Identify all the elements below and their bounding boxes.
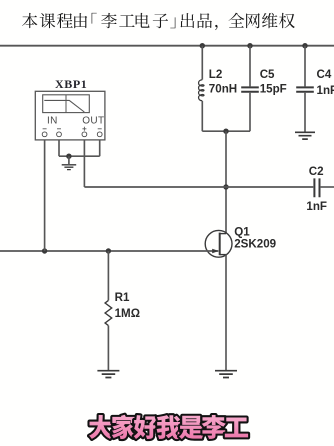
wire: OUT- drop [99, 137, 101, 156]
wire: R1 top lead [107, 251, 109, 300]
svg-text:C2: C2 [309, 165, 324, 178]
node: junction dot gate/IN+ [42, 248, 47, 253]
wire: C4 bottom lead [304, 93, 306, 132]
pin mark OUT- [98, 128, 102, 130]
wire: C2 right lead [321, 186, 334, 188]
svg-text:70nH: 70nH [209, 83, 237, 96]
ground: below C4 [295, 132, 315, 139]
transistor Q1 source stub [220, 254, 226, 256]
pin mark IN+ [43, 128, 47, 130]
wire: gate rail [0, 250, 218, 252]
wire: minus terminals tie [59, 155, 100, 157]
pin OUT- terminal [97, 132, 102, 137]
node: junction dot ground tie [66, 154, 71, 159]
svg-text:Q1: Q1 [234, 225, 250, 238]
capacitor C5 plates [241, 87, 259, 91]
wire: IN+ probe drop [44, 137, 46, 251]
svg-text:1MΩ: 1MΩ [115, 307, 140, 320]
svg-text:1nF: 1nF [306, 200, 327, 213]
pin mark OUT+ [82, 127, 86, 131]
node: junction dot output [223, 184, 228, 189]
ground: below R1 [97, 371, 119, 378]
wire: OUT+ probe drop [83, 137, 85, 187]
wire: drain vertical [225, 131, 227, 233]
node: junction dot rail/L2 [200, 43, 205, 48]
svg-text:C4: C4 [317, 68, 332, 81]
instrument XBP1 screen curve [44, 100, 84, 112]
wire: C5 bottom lead [249, 93, 251, 131]
svg-text:2SK209: 2SK209 [234, 238, 276, 251]
subtitle text: 大家好我是李工 [89, 415, 113, 439]
instrument XBP1 box [35, 91, 105, 140]
svg-text:15pF: 15pF [260, 83, 287, 96]
node: junction dot rail/C4 [302, 43, 307, 48]
transistor Q1 body [205, 230, 232, 257]
wire: ground stub [68, 156, 70, 164]
wire: R1 bottom lead [107, 326, 109, 370]
transistor Q1 channel bar [219, 233, 221, 256]
wire: top supply rail [0, 45, 334, 47]
wire: L2 bottom lead [201, 101, 203, 131]
inductor L2 coil [199, 80, 204, 101]
svg-text:L2: L2 [209, 68, 223, 81]
svg-text:C5: C5 [260, 68, 275, 81]
svg-text:R1: R1 [115, 291, 130, 304]
wire: output to C2 [84, 186, 313, 188]
pin OUT+ terminal [82, 132, 87, 137]
wire: C5 top lead [249, 46, 251, 87]
node: junction dot gate/R1 [106, 248, 111, 253]
pin IN- terminal [57, 132, 62, 137]
transistor Q1 gate arrow [212, 249, 219, 254]
wire: L2 top lead [201, 46, 203, 80]
instrument XBP1 screen [43, 95, 90, 113]
ground: below XBP1 [62, 165, 76, 170]
pin mark IN- [57, 128, 61, 130]
capacitor C2 plates [314, 178, 319, 197]
node: junction dot tank/drain [223, 129, 228, 134]
capacitor C4 plates [296, 87, 314, 91]
resistor R1 zigzag [105, 300, 112, 325]
wire: C4 top lead [304, 46, 306, 87]
wire: tank bottom [202, 130, 250, 132]
ground: below Q1 source [215, 371, 237, 378]
transistor Q1 drain stub [220, 233, 226, 235]
svg-text:XBP1: XBP1 [55, 77, 87, 91]
svg-text:OUT: OUT [82, 115, 104, 126]
title text: 本课程由「李工电子」出品，全网维权 [22, 13, 37, 28]
node: junction dot rail/C5 [247, 43, 252, 48]
pin IN+ terminal [42, 132, 47, 137]
wire: IN- drop [58, 137, 60, 156]
svg-text:1nF: 1nF [317, 84, 334, 97]
instrument XBP1 screen divider [65, 95, 67, 113]
wire: source vertical [225, 255, 227, 370]
svg-text:IN: IN [47, 115, 58, 126]
